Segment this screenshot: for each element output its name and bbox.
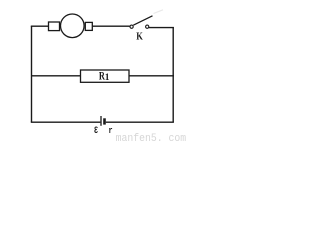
svg-text:1: 1 bbox=[105, 73, 110, 83]
svg-text:K: K bbox=[136, 30, 143, 42]
svg-text:r: r bbox=[109, 125, 113, 136]
svg-text:ε: ε bbox=[94, 123, 98, 137]
svg-text:manfen5. com: manfen5. com bbox=[116, 133, 187, 144]
